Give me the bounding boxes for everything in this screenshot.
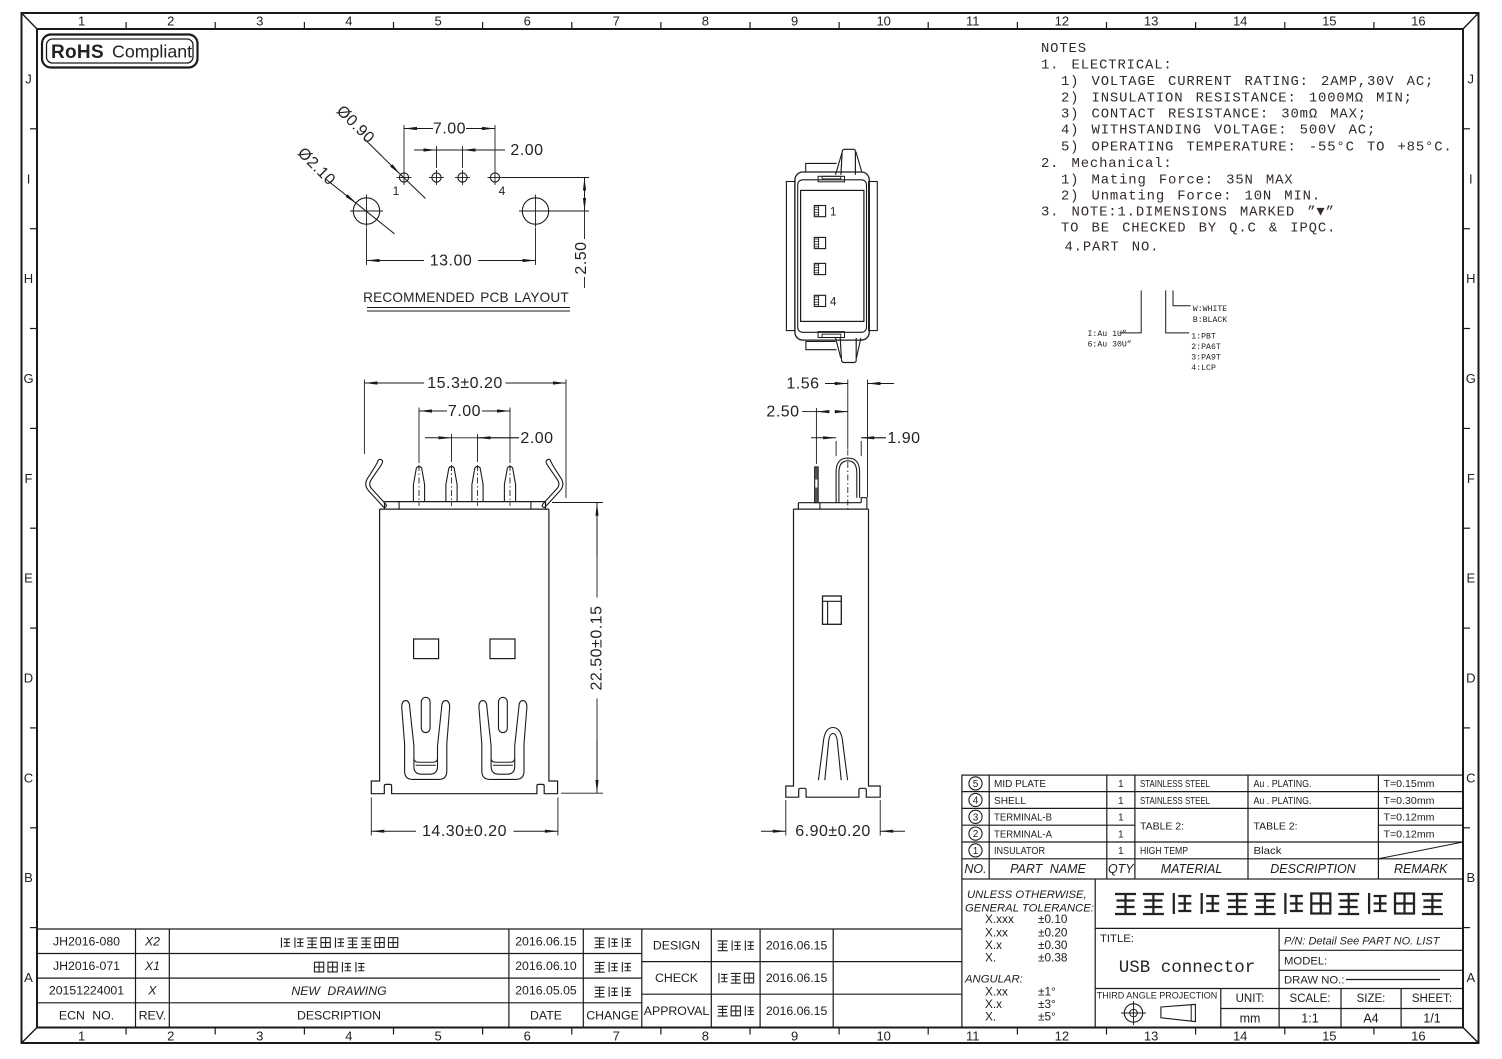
- face view: contact pad 3: [814, 263, 825, 274]
- front view: terminal pin 2: [446, 467, 457, 502]
- svg-text:X.xxx: X.xxx: [985, 912, 1014, 926]
- dimension 2.00 (pcb): [436, 146, 438, 168]
- parts list table grid: [962, 775, 1463, 879]
- svg-text:2016.06.10: 2016.06.10: [515, 959, 577, 973]
- svg-text:SIZE:: SIZE:: [1357, 993, 1386, 1005]
- dimension 6.90±0.20 (side bottom width): [785, 800, 787, 836]
- svg-text:1: 1: [830, 207, 836, 219]
- dimension 7.00 (front pins): [418, 408, 420, 464]
- svg-text:1: 1: [1118, 779, 1124, 790]
- svg-text:16: 16: [1411, 1029, 1425, 1044]
- svg-text:CHECK: CHECK: [655, 971, 699, 985]
- svg-text:6: 6: [524, 14, 531, 29]
- pcb layout hole 4 (small): [490, 173, 499, 182]
- dimension 1.56 (side top): [847, 380, 849, 450]
- side view: right corner step: [861, 498, 867, 509]
- svg-text:6.90±0.20: 6.90±0.20: [795, 823, 871, 840]
- svg-text:4: 4: [345, 14, 352, 29]
- svg-text:7: 7: [613, 1029, 620, 1044]
- svg-text:TERMINAL-B: TERMINAL-B: [994, 813, 1052, 824]
- svg-text:±0.10: ±0.10: [1038, 912, 1068, 926]
- margin grid column numbers top: [78, 14, 1426, 29]
- corner diagonal top-left: [22, 13, 38, 29]
- approval table texts: [644, 939, 828, 1019]
- svg-text:SHELL: SHELL: [994, 796, 1026, 807]
- svg-text:7.00: 7.00: [433, 121, 466, 138]
- svg-text:F: F: [1467, 471, 1475, 486]
- svg-text:8: 8: [702, 14, 709, 29]
- svg-text:1: 1: [1118, 796, 1124, 807]
- dimension 2.00 (front middle pins): [451, 434, 453, 462]
- face view: bottom recess notch: [818, 332, 844, 338]
- svg-text:X: X: [147, 984, 157, 998]
- face view: contact pad 4: [814, 295, 825, 306]
- svg-text:NO.: NO.: [964, 862, 986, 876]
- svg-text:Compliant: Compliant: [112, 42, 192, 62]
- svg-text:1: 1: [393, 184, 400, 198]
- svg-text:T=0.12mm: T=0.12mm: [1384, 829, 1435, 840]
- svg-text:1) VOLTAGE CURRENT RATING: 2AM: 1) VOLTAGE CURRENT RATING: 2AMP,30V AC;: [1061, 74, 1434, 90]
- svg-text:ECN NO.: ECN NO.: [59, 1009, 114, 1023]
- svg-text:4: 4: [973, 796, 979, 807]
- svg-text:E: E: [1466, 571, 1475, 586]
- svg-text:13: 13: [1144, 14, 1158, 29]
- svg-text:2016.06.15: 2016.06.15: [766, 1004, 828, 1018]
- svg-text:2.00: 2.00: [510, 142, 543, 159]
- svg-text:A: A: [24, 970, 33, 985]
- svg-text:4:LCP: 4:LCP: [1191, 364, 1216, 373]
- svg-text:10: 10: [876, 1029, 890, 1044]
- svg-text:TABLE 2:: TABLE 2:: [1140, 822, 1184, 833]
- svg-text:4) WITHSTANDING VOLTAGE: 500V: 4) WITHSTANDING VOLTAGE: 500V AC;: [1061, 123, 1376, 139]
- svg-text:±0.38: ±0.38: [1038, 951, 1068, 965]
- svg-text:DATE: DATE: [530, 1009, 562, 1023]
- svg-text:10: 10: [876, 14, 890, 29]
- svg-text:13.00: 13.00: [430, 253, 473, 270]
- pcb layout hole 3 (small): [458, 173, 467, 182]
- face view: inner shell line: [798, 180, 867, 332]
- face view: contact pad 2: [814, 237, 825, 248]
- material codes text: [1191, 332, 1221, 373]
- corner diagonal bottom-right: [1463, 1028, 1479, 1044]
- margin grid row letters left: [23, 71, 33, 985]
- margin grid row letters right: [1466, 71, 1476, 985]
- side view: window rectangle: [823, 596, 842, 624]
- front view: terminal pin 4: [504, 467, 515, 502]
- svg-text:J: J: [25, 71, 32, 86]
- svg-text:CHANGE: CHANGE: [586, 1009, 639, 1023]
- svg-text:NOTES: NOTES: [1041, 41, 1087, 57]
- svg-text:5: 5: [434, 1029, 441, 1044]
- svg-text:JH2016-080: JH2016-080: [53, 935, 120, 949]
- svg-text:3: 3: [973, 812, 979, 823]
- svg-text:G: G: [1466, 371, 1476, 386]
- svg-text:5: 5: [973, 779, 979, 790]
- svg-text:1: 1: [78, 1029, 85, 1044]
- svg-text:3: 3: [256, 1029, 263, 1044]
- svg-text:J: J: [1468, 71, 1475, 86]
- svg-text:REV.: REV.: [139, 1009, 167, 1023]
- svg-text:2016.06.15: 2016.06.15: [766, 971, 828, 985]
- svg-text:D: D: [24, 671, 33, 686]
- parts table remark diagonal (insulator row): [1378, 842, 1463, 859]
- svg-text:11: 11: [966, 14, 980, 29]
- front view: right window square: [490, 639, 515, 659]
- svg-text:Au . PLATING.: Au . PLATING.: [1254, 796, 1312, 807]
- svg-text:14: 14: [1233, 14, 1247, 29]
- pcb layout hole 1 (small): [399, 173, 408, 182]
- svg-text:1: 1: [1118, 846, 1124, 857]
- svg-text:±5°: ±5°: [1038, 1010, 1056, 1024]
- svg-text:A: A: [1466, 970, 1475, 985]
- svg-text:16: 16: [1411, 14, 1425, 29]
- face view: contact pad 1: [814, 206, 825, 217]
- svg-text:TO BE CHECKED BY Q.C & IPQC.: TO BE CHECKED BY Q.C & IPQC.: [1061, 221, 1336, 237]
- side view: top flange: [794, 508, 869, 510]
- svg-text:14: 14: [1233, 1029, 1247, 1044]
- svg-text:RECOMMENDED PCB LAYOUT: RECOMMENDED PCB LAYOUT: [363, 290, 569, 305]
- svg-text:PART NAME: PART NAME: [1010, 862, 1086, 876]
- svg-text:I: I: [1469, 171, 1473, 186]
- dimension 2.50 (pcb vertical): [502, 177, 589, 179]
- svg-text:4: 4: [499, 184, 506, 198]
- svg-text:X.: X.: [985, 1010, 996, 1024]
- front view: right spring arm: [542, 459, 563, 507]
- parts table row texts: [994, 779, 1435, 857]
- svg-text:DESCRIPTION: DESCRIPTION: [1270, 862, 1356, 876]
- part number legend: material branch line: [1166, 290, 1189, 333]
- dimension 15.3±0.20 (front width): [363, 380, 365, 455]
- front view: left spring arm: [366, 459, 387, 507]
- svg-text:5: 5: [434, 14, 441, 29]
- svg-text:G: G: [23, 371, 33, 386]
- svg-text:H: H: [1466, 271, 1475, 286]
- svg-text:15.3±0.20: 15.3±0.20: [427, 375, 503, 392]
- svg-text:DRAW NO.:: DRAW NO.:: [1284, 975, 1344, 987]
- svg-text:8: 8: [702, 1029, 709, 1044]
- svg-text:15: 15: [1322, 14, 1336, 29]
- svg-text:2: 2: [973, 829, 979, 840]
- svg-text:D: D: [1466, 671, 1475, 686]
- svg-text:A4: A4: [1363, 1012, 1378, 1026]
- svg-text:T=0.12mm: T=0.12mm: [1384, 813, 1435, 824]
- svg-text:9: 9: [791, 1029, 798, 1044]
- color codes text: [1193, 305, 1227, 325]
- approval table grid: [642, 929, 962, 1028]
- dimension 14.30±0.20 (front bottom width): [370, 798, 372, 836]
- face view: top tab (pin side): [806, 163, 837, 171]
- svg-text:1: 1: [1118, 813, 1124, 824]
- svg-text:2016.06.15: 2016.06.15: [515, 935, 577, 949]
- svg-text:7: 7: [613, 14, 620, 29]
- svg-text:E: E: [24, 571, 33, 586]
- svg-text:3. NOTE:1.DIMENSIONS MARKED ”▼: 3. NOTE:1.DIMENSIONS MARKED ”▼”: [1041, 205, 1335, 221]
- svg-text:2) INSULATION RESISTANCE: 1000: 2) INSULATION RESISTANCE: 1000MΩ MIN;: [1061, 90, 1413, 106]
- svg-text:1. ELECTRICAL:: 1. ELECTRICAL:: [1041, 58, 1173, 74]
- svg-text:TERMINAL-A: TERMINAL-A: [994, 829, 1052, 840]
- svg-text:15: 15: [1322, 1029, 1336, 1044]
- face view: insulator tongue: [801, 190, 864, 321]
- dimension 22.50±0.15 (front height): [552, 502, 603, 504]
- svg-text:DESCRIPTION: DESCRIPTION: [297, 1009, 381, 1023]
- projection symbol: circle target: [1124, 1004, 1142, 1022]
- svg-text:MID PLATE: MID PLATE: [994, 779, 1046, 790]
- svg-text:I:Au 1U”: I:Au 1U”: [1088, 329, 1127, 339]
- svg-text:3: 3: [256, 14, 263, 29]
- svg-text:B: B: [1466, 870, 1475, 885]
- svg-text:2: 2: [167, 1029, 174, 1044]
- svg-text:13: 13: [1144, 1029, 1158, 1044]
- part number legend: color branch line: [1173, 290, 1191, 305]
- svg-text:1:PBT: 1:PBT: [1191, 332, 1216, 341]
- face view: left side tab: [786, 182, 795, 331]
- company name (CJK pseudo glyphs): [1115, 894, 1136, 914]
- svg-text:1: 1: [78, 14, 85, 29]
- svg-text:2016.06.15: 2016.06.15: [766, 939, 828, 953]
- margin grid column numbers bottom: [78, 1029, 1426, 1044]
- svg-text:DESIGN: DESIGN: [653, 939, 700, 953]
- svg-text:B:BLACK: B:BLACK: [1193, 316, 1227, 325]
- svg-text:SCALE:: SCALE:: [1290, 993, 1331, 1005]
- svg-text:MODEL:: MODEL:: [1284, 956, 1327, 968]
- projection symbol: cone: [1161, 1004, 1196, 1021]
- face view: bottom tab (latch side): [806, 342, 837, 350]
- svg-text:2. Mechanical:: 2. Mechanical:: [1041, 156, 1173, 172]
- revision row 1: [49, 935, 639, 1023]
- svg-text:5) OPERATING TEMPERATURE: -55°: 5) OPERATING TEMPERATURE: -55°C TO +85°C…: [1061, 140, 1453, 156]
- svg-text:1.90: 1.90: [887, 430, 920, 447]
- svg-text:I: I: [27, 171, 31, 186]
- svg-text:B: B: [24, 870, 33, 885]
- side view: body outline with bottom feet: [786, 509, 880, 797]
- front view: left window square: [414, 639, 439, 659]
- svg-text:QTY: QTY: [1108, 862, 1135, 876]
- svg-text:RoHS: RoHS: [51, 42, 104, 63]
- revision table grid: [37, 929, 962, 1028]
- svg-text:STAINLESS STEEL: STAINLESS STEEL: [1140, 796, 1210, 807]
- svg-text:22.50±0.15: 22.50±0.15: [589, 606, 606, 691]
- svg-text:11: 11: [966, 1029, 980, 1044]
- svg-text:SHEET:: SHEET:: [1412, 993, 1452, 1005]
- svg-text:2016.05.05: 2016.05.05: [515, 984, 577, 998]
- svg-text:MATERIAL: MATERIAL: [1161, 862, 1223, 876]
- svg-text:Au . PLATING.: Au . PLATING.: [1254, 779, 1312, 790]
- dimension 7.00 (pcb): [403, 125, 405, 170]
- side view: bottom latch fork: [818, 728, 847, 781]
- svg-text:1: 1: [1118, 829, 1124, 840]
- svg-text:3) CONTACT RESISTANCE: 30mΩ MA: 3) CONTACT RESISTANCE: 30mΩ MAX;: [1061, 106, 1367, 122]
- svg-text:2.50: 2.50: [573, 241, 590, 274]
- svg-text:T=0.15mm: T=0.15mm: [1384, 779, 1435, 790]
- svg-text:2: 2: [167, 14, 174, 29]
- front view: left retention fork cutout: [402, 701, 450, 780]
- svg-text:1: 1: [973, 846, 979, 857]
- front view: shell body outline with bottom feet and notches: [371, 509, 557, 794]
- svg-text:W:WHITE: W:WHITE: [1193, 305, 1227, 314]
- svg-text:APPROVAL: APPROVAL: [644, 1004, 710, 1018]
- dimension 1.90 (side hook): [835, 441, 837, 456]
- dimension 13.00 (pcb): [366, 228, 368, 265]
- parts table circled item numbers: [969, 777, 982, 857]
- svg-text:JH2016-071: JH2016-071: [53, 959, 120, 973]
- face view: top recess notch: [818, 176, 844, 182]
- side view: terminal pin tail: [815, 467, 819, 503]
- svg-text:T=0.30mm: T=0.30mm: [1384, 796, 1435, 807]
- front view: terminal pin 3: [472, 467, 483, 502]
- svg-text:2:PA6T: 2:PA6T: [1191, 343, 1221, 352]
- svg-text:UNLESS OTHERWISE,: UNLESS OTHERWISE,: [967, 889, 1087, 901]
- svg-text:TITLE:: TITLE:: [1100, 933, 1134, 945]
- svg-text:7.00: 7.00: [448, 403, 481, 420]
- svg-text:UNIT:: UNIT:: [1236, 993, 1265, 1005]
- svg-text:STAINLESS STEEL: STAINLESS STEEL: [1140, 779, 1210, 790]
- svg-text:1) Mating Force: 35N MAX: 1) Mating Force: 35N MAX: [1061, 172, 1293, 188]
- svg-text:USB connector: USB connector: [1119, 958, 1256, 978]
- svg-text:TABLE 2:: TABLE 2:: [1254, 822, 1298, 833]
- unit/scale/size/sheet labels: [1236, 993, 1453, 1005]
- notes text block: [1041, 41, 1453, 256]
- svg-text:4: 4: [345, 1029, 352, 1044]
- pcb layout mounting hole right (big): [522, 198, 548, 224]
- svg-text:2.00: 2.00: [520, 430, 553, 447]
- face view: right side tab: [869, 182, 878, 331]
- svg-text:2.50: 2.50: [766, 404, 799, 421]
- svg-text:4.PART NO.: 4.PART NO.: [1065, 240, 1160, 256]
- svg-text:F: F: [25, 471, 33, 486]
- front view: right retention fork cutout: [479, 701, 527, 780]
- svg-text:1:1: 1:1: [1301, 1012, 1318, 1026]
- svg-text:6:Au 30U”: 6:Au 30U”: [1088, 340, 1132, 350]
- corner diagonal top-right: [1463, 13, 1479, 29]
- svg-text:X.: X.: [985, 951, 996, 965]
- plating codes text: [1088, 329, 1132, 350]
- svg-text:14.30±0.20: 14.30±0.20: [422, 823, 507, 840]
- svg-text:6: 6: [524, 1029, 531, 1044]
- svg-text:P/N: Detail See PART NO. LIST: P/N: Detail See PART NO. LIST: [1284, 936, 1441, 948]
- svg-text:X2: X2: [144, 935, 160, 949]
- svg-text:12: 12: [1055, 14, 1069, 29]
- svg-text:20151224001: 20151224001: [49, 984, 124, 998]
- revision CJK descriptions: [281, 937, 290, 947]
- title block grid: [962, 879, 1463, 1028]
- parts table header row: [964, 862, 1448, 876]
- dimension 2.50 (side): [815, 408, 817, 464]
- svg-text:4: 4: [830, 297, 837, 309]
- svg-text:C: C: [24, 770, 33, 785]
- svg-text:1/1: 1/1: [1423, 1012, 1440, 1026]
- pcb layout mounting hole left (big): [353, 198, 379, 224]
- svg-text:9: 9: [791, 14, 798, 29]
- svg-text:12: 12: [1055, 1029, 1069, 1044]
- face view: outer shell rounded rect: [795, 172, 869, 340]
- svg-text:Black: Black: [1254, 846, 1283, 857]
- svg-text:THIRD ANGLE PROJECTION: THIRD ANGLE PROJECTION: [1097, 991, 1218, 1001]
- part number legend: plating branch line: [1120, 290, 1142, 333]
- svg-text:HIGH TEMP: HIGH TEMP: [1140, 846, 1188, 857]
- svg-text:C: C: [1466, 770, 1475, 785]
- front view: terminal pin 1: [413, 467, 424, 502]
- side view: contact hook (bent terminal): [836, 458, 860, 503]
- svg-text:H: H: [24, 271, 33, 286]
- svg-text:X1: X1: [144, 959, 160, 973]
- svg-text:INSULATOR: INSULATOR: [994, 846, 1045, 857]
- front view: top flange plate: [380, 508, 549, 510]
- general tolerance block text: [965, 889, 1094, 915]
- corner diagonal bottom-left: [22, 1028, 38, 1044]
- svg-text:mm: mm: [1240, 1012, 1261, 1026]
- svg-text:NEW DRAWING: NEW DRAWING: [291, 984, 387, 998]
- RoHS Compliant label box: [42, 35, 198, 68]
- svg-text:2) Unmating Force: 10N MIN.: 2) Unmating Force: 10N MIN.: [1061, 188, 1321, 204]
- approver CJK names: [717, 941, 727, 951]
- svg-text:3:PA9T: 3:PA9T: [1191, 353, 1221, 362]
- svg-text:REMARK: REMARK: [1394, 862, 1448, 876]
- svg-text:1.56: 1.56: [786, 376, 819, 393]
- pcb layout hole 2 (small): [432, 173, 441, 182]
